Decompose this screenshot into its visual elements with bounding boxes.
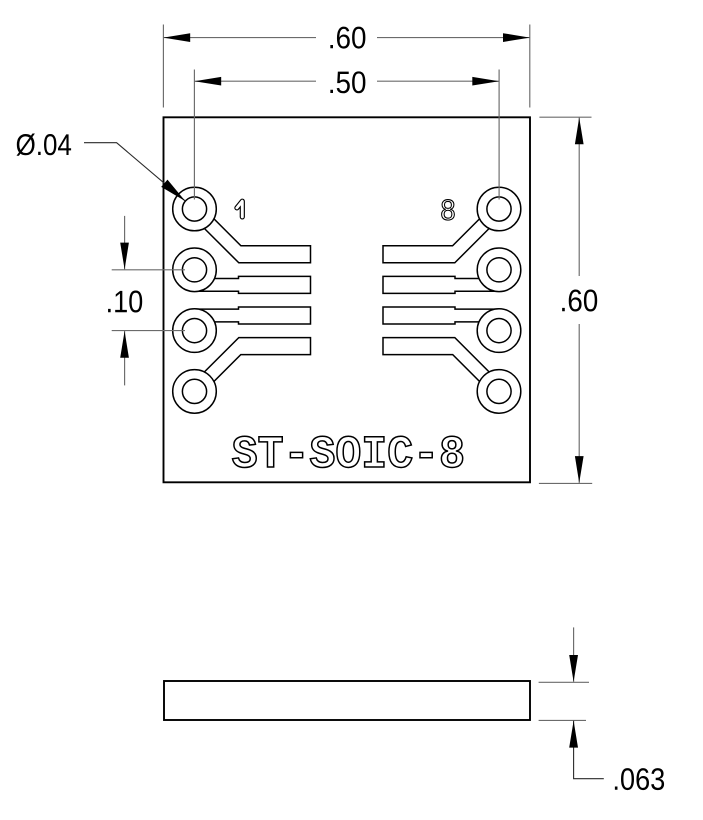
dim .063: upper stem — [573, 627, 575, 681]
dim .10 left: extension line top (to pad 2 center) — [112, 269, 185, 271]
dim .50 top: dimension line — [194, 80, 499, 82]
dim .10 left: label — [108, 291, 142, 313]
callout dia .04: label — [17, 134, 72, 156]
pad 7 — [477, 248, 521, 292]
pad 4 — [173, 370, 217, 414]
dim .60 right: dimension line — [578, 118, 580, 483]
dim .60 right: extension line bottom — [539, 482, 592, 484]
dim .60 top: extension line left — [162, 25, 164, 108]
side view board body — [164, 681, 530, 720]
dim .10 left: up arrowhead — [120, 331, 129, 358]
board outline (top view) — [164, 117, 531, 482]
dim .50 top: left arrowhead — [194, 77, 221, 86]
dim .60 top: extension line right — [529, 25, 531, 108]
dim .60 top: left arrowhead — [163, 33, 190, 42]
pad 2 trace — [195, 276, 311, 293]
dim .50 top: label — [330, 71, 365, 93]
dim .60 right: top arrowhead — [575, 118, 584, 145]
dim .063: down arrowhead — [569, 655, 578, 682]
pad 6 — [477, 309, 521, 353]
dim .063: extension line bottom — [539, 719, 586, 721]
pad 1 trace — [188, 192, 311, 262]
silkscreen text ST-SOIC-8 — [233, 436, 463, 467]
pad 7 trace — [383, 276, 499, 293]
dim .60 right: label — [562, 290, 597, 312]
pin label 1 — [237, 201, 242, 217]
pad 4 trace — [188, 338, 311, 408]
pad 3 — [173, 309, 217, 353]
pin label 8 — [442, 200, 455, 221]
dim .60 top: dimension line — [163, 37, 529, 39]
dim .063: up arrowhead — [569, 721, 578, 748]
dim .50 top: extension line right (to pad 8 center) — [498, 70, 500, 200]
pad 5 — [477, 370, 521, 414]
dim .063: extension line top — [539, 681, 589, 683]
dim .063: label — [615, 768, 664, 790]
pad 1 — [173, 187, 217, 231]
pad 2 — [173, 248, 217, 292]
pad 8 — [477, 187, 521, 231]
pad 6 trace — [383, 307, 499, 324]
dim .10 left: upper stem — [124, 216, 126, 270]
dim .063: lower stem and leader — [574, 721, 604, 779]
dim .60 right: extension line top — [539, 116, 591, 118]
dim .50 top: right arrowhead — [472, 77, 499, 86]
dim .60 top: right arrowhead — [503, 33, 530, 42]
dim .10 left: lower stem — [124, 331, 126, 385]
dim .60 right: bottom arrowhead — [575, 456, 584, 483]
pad 8 trace — [383, 192, 506, 262]
dim .60 top: label — [330, 27, 365, 49]
dim .10 left: extension line bottom (to pad 3 center) — [112, 330, 185, 332]
dim .10 left: down arrowhead — [120, 243, 129, 270]
pad 5 trace — [383, 338, 506, 408]
dim .50 top: extension line left (to pad 1 center) — [193, 70, 195, 200]
callout dia .04: leader line — [84, 143, 185, 201]
pad 3 trace — [195, 307, 311, 324]
callout dia .04: leader arrowhead — [161, 180, 185, 202]
